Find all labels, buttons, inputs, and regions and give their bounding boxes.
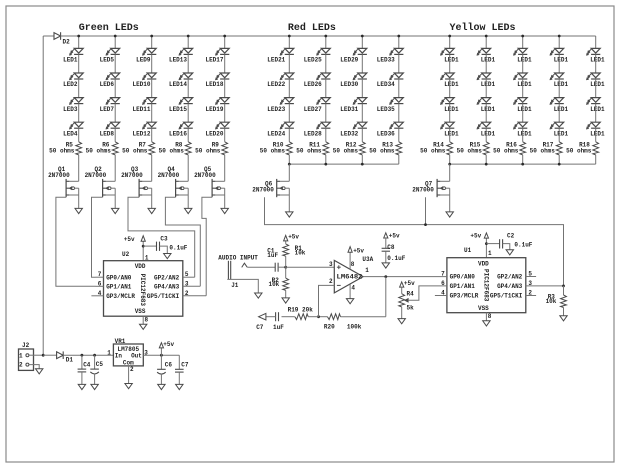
wire: Q7 gate tap: [425, 197, 427, 224]
svg-text:50 ohms: 50 ohms: [530, 147, 556, 154]
connector J1 (audio jack): [228, 261, 247, 280]
svg-text:C7: C7: [256, 324, 264, 331]
wire: Q1 gate to U2 GP1/AN1: [56, 197, 96, 286]
wire: [558, 128, 560, 142]
LED LED1: [550, 122, 564, 129]
node: C5 tap: [93, 354, 96, 357]
svg-text:LED9: LED9: [136, 57, 151, 64]
LED LED31: [353, 98, 367, 105]
svg-text:C6: C6: [165, 362, 173, 369]
svg-text:GP1/AN1: GP1/AN1: [106, 284, 132, 291]
svg-text:LED22: LED22: [267, 81, 285, 88]
svg-text:50 ohms: 50 ohms: [260, 147, 286, 154]
ground at C2: [506, 250, 513, 255]
svg-text:VR1: VR1: [115, 338, 126, 345]
svg-text:LED27: LED27: [304, 106, 322, 113]
svg-text:2N7000: 2N7000: [48, 172, 70, 179]
svg-text:LED1: LED1: [444, 130, 459, 137]
pin stub U2 pin5: [183, 276, 195, 278]
svg-text:R19 20k: R19 20k: [288, 306, 314, 313]
svg-text:D2: D2: [63, 39, 71, 46]
LED LED27: [316, 98, 330, 105]
svg-text:LED1: LED1: [517, 106, 532, 113]
wire: [361, 155, 363, 164]
LED LED11: [142, 98, 156, 105]
svg-text:1uF: 1uF: [267, 252, 278, 259]
capacitor C8 (0.1uF bypass): [382, 238, 390, 263]
LED LED28: [316, 122, 330, 129]
svg-text:LED20: LED20: [205, 130, 223, 137]
wire: op-amp pin4 to ground: [349, 284, 351, 298]
transistor Q7 (2N7000): [437, 179, 450, 212]
pin stub U2 pin3: [183, 285, 201, 287]
wire: Q6 drain from red bus: [288, 164, 290, 181]
svg-text:1uF: 1uF: [273, 324, 284, 331]
wire: [361, 54, 363, 73]
wire: U1 pin3 to gate net / R3: [526, 285, 564, 287]
resistor R8 (50 ohms): [185, 142, 191, 155]
wire: VR1 Com to ground: [128, 366, 130, 384]
resistor R2 (10k) to ground: [283, 267, 289, 298]
wire: R4 wiper to U1 GP1/AN1: [408, 286, 447, 300]
ground at C8: [382, 263, 389, 268]
wire: LED column: [558, 36, 560, 48]
wire: C3 to ground: [160, 246, 168, 253]
LED LED1: [513, 98, 527, 105]
pin stub U2 pin6: [96, 285, 104, 287]
svg-text:50 ohms: 50 ohms: [159, 147, 185, 154]
svg-text:LED11: LED11: [132, 106, 150, 113]
svg-text:LED2: LED2: [63, 81, 78, 88]
wire: [288, 155, 290, 164]
capacitor C1 (1uF): [275, 263, 278, 272]
transistor Q4 (2N7000): [176, 179, 189, 209]
svg-text:Yellow LEDs: Yellow LEDs: [450, 22, 516, 34]
LED LED21: [280, 48, 294, 55]
wire: U1 VDD pin: [485, 244, 487, 258]
pin stub U2 pin7: [96, 276, 104, 278]
wire: J1 tip to C1: [247, 266, 275, 268]
wire: LED column: [485, 36, 487, 48]
resistor R12 (50 ohms): [359, 142, 365, 155]
wire: LED column: [114, 36, 116, 48]
resistor R5 (50 ohms): [76, 142, 82, 155]
diode D2: [54, 32, 61, 40]
svg-text:50 ohms: 50 ohms: [369, 147, 395, 154]
LED LED20: [215, 122, 229, 129]
LED LED1: [550, 98, 564, 105]
wire: LED column: [288, 36, 290, 48]
LED LED14: [179, 73, 193, 80]
svg-text:LED30: LED30: [340, 81, 358, 88]
ground at Q2 source: [112, 208, 119, 213]
wire: [78, 54, 80, 73]
LED LED36: [389, 122, 403, 129]
svg-text:+5v: +5v: [404, 280, 415, 287]
svg-text:+5v: +5v: [124, 236, 135, 243]
LED LED33: [389, 48, 403, 55]
op-amp U3A (LM6482): [334, 260, 363, 293]
svg-text:LED1: LED1: [481, 57, 496, 64]
wire: [522, 79, 524, 98]
wire: D1 to VR1 In: [63, 354, 113, 356]
transistor Q1 (2N7000): [66, 179, 79, 209]
ground at Q5 source: [221, 208, 228, 213]
svg-text:PIC12F683: PIC12F683: [139, 274, 146, 307]
svg-text:LED13: LED13: [169, 57, 187, 64]
svg-text:GP0/AN0: GP0/AN0: [106, 274, 132, 281]
LED LED16: [179, 122, 193, 129]
wire: op-amp output to U1 GP0/AN0: [363, 276, 447, 278]
svg-text:4: 4: [351, 285, 355, 292]
wire: left supply rail from D2 anode down to input node: [42, 36, 44, 355]
wire: [224, 54, 226, 73]
wire: [151, 155, 153, 181]
svg-text:LED15: LED15: [169, 106, 187, 113]
power +5v at C8: [384, 233, 400, 240]
capacitor C6 (electrolytic): [157, 355, 166, 384]
svg-text:LED35: LED35: [377, 106, 395, 113]
LED LED3: [69, 98, 83, 105]
svg-text:LED1: LED1: [554, 57, 569, 64]
svg-text:R20: R20: [324, 323, 335, 330]
wire: [449, 104, 451, 123]
svg-text:LED31: LED31: [340, 106, 358, 113]
potentiometer R4 (5k): [399, 287, 408, 319]
wire: [325, 155, 327, 164]
wire: U2 VSS to ground: [142, 316, 144, 324]
pin stub U1 pin5 (unconnected): [526, 276, 536, 278]
wire: [325, 104, 327, 123]
svg-text:LED17: LED17: [205, 57, 223, 64]
svg-text:2: 2: [329, 278, 333, 285]
wire: [224, 155, 226, 181]
wire: [449, 79, 451, 98]
wire: C7 to off-page arrow: [266, 316, 276, 318]
ground at op-amp pin4: [346, 299, 353, 304]
svg-text:2N7000: 2N7000: [194, 172, 216, 179]
svg-text:+5v: +5v: [353, 247, 364, 254]
wire: junction up to op-amp -input: [319, 285, 335, 316]
wire: to C2: [486, 243, 499, 245]
LED LED32: [353, 122, 367, 129]
svg-text:LED23: LED23: [267, 106, 285, 113]
LED LED25: [316, 48, 330, 55]
svg-text:LED3: LED3: [63, 106, 78, 113]
wire: C1 to bias node: [278, 266, 286, 268]
wire: feedback bottom run: [341, 316, 386, 318]
svg-text:GP5/T1CKI: GP5/T1CKI: [490, 293, 523, 300]
svg-text:LED1: LED1: [481, 106, 496, 113]
svg-text:U1: U1: [464, 247, 472, 254]
resistor R9 (50 ohms): [222, 142, 228, 155]
svg-text:2N7000: 2N7000: [85, 172, 107, 179]
wire: [522, 155, 524, 164]
svg-text:LED24: LED24: [267, 130, 285, 137]
wire: Q6/Q7 gate net from U1 GP4/AN3: [265, 197, 564, 286]
svg-text:10k: 10k: [295, 249, 306, 256]
wire: [361, 79, 363, 98]
LED LED1: [586, 48, 600, 55]
svg-text:R4: R4: [407, 291, 415, 298]
svg-text:1: 1: [19, 353, 23, 360]
svg-text:2: 2: [130, 366, 134, 373]
LED LED26: [316, 73, 330, 80]
LED LED1: [586, 122, 600, 129]
wire: [78, 155, 80, 181]
LED LED10: [142, 73, 156, 80]
svg-text:8: 8: [351, 261, 355, 268]
wire: [78, 104, 80, 123]
wire: [114, 104, 116, 123]
svg-text:50 ohms: 50 ohms: [457, 147, 483, 154]
wire: LED column: [151, 36, 153, 48]
LED LED7: [106, 98, 120, 105]
svg-text:U2: U2: [122, 251, 130, 258]
LED LED1: [477, 73, 491, 80]
resistor R18 (50 ohms): [593, 142, 599, 155]
svg-text:8: 8: [488, 313, 492, 320]
svg-text:1: 1: [107, 350, 111, 357]
svg-text:GP4/AN3: GP4/AN3: [154, 284, 180, 291]
svg-text:GP3/MCLR: GP3/MCLR: [106, 293, 135, 300]
svg-text:LED8: LED8: [100, 130, 115, 137]
transistor Q2 (2N7000): [103, 179, 116, 209]
wire: [398, 128, 400, 142]
wire: top LED supply rail: [61, 35, 596, 37]
resistor R7 (50 ohms): [149, 142, 155, 155]
wire: [485, 104, 487, 123]
LED LED34: [389, 73, 403, 80]
wire: [151, 104, 153, 123]
wire: yellow bank bus: [450, 163, 596, 165]
wire: [522, 128, 524, 142]
node A: bias junction: [284, 266, 287, 269]
node: pin3 junction: [562, 285, 565, 288]
resistor R15 (50 ohms): [483, 142, 489, 155]
capacitor C7 (1uF, feedback): [276, 312, 279, 321]
transistor Q6 (2N7000): [277, 179, 290, 212]
LED LED1: [440, 122, 454, 129]
wire: [78, 79, 80, 98]
wire: [288, 54, 290, 73]
wire: [187, 104, 189, 123]
LED LED18: [215, 73, 229, 80]
wire: U2 VDD pin: [142, 246, 144, 261]
wire: J2 pin2 to ground: [29, 365, 39, 369]
svg-text:GP0/AN0: GP0/AN0: [450, 274, 476, 281]
LED LED1: [513, 73, 527, 80]
wire: Q7 drain from yellow bus: [449, 164, 451, 181]
wire: [151, 128, 153, 142]
resistor R1 (10k) to +5v: [283, 241, 289, 267]
LED LED35: [389, 98, 403, 105]
power +5v at U2 VDD: [124, 236, 146, 246]
wire: LED column: [595, 36, 597, 48]
LED LED4: [69, 122, 83, 129]
node: yellow bus junctions: [448, 163, 451, 166]
svg-text:LED12: LED12: [132, 130, 150, 137]
ground at U1 VSS: [483, 321, 490, 326]
wire: [595, 54, 597, 73]
svg-text:LED1: LED1: [590, 106, 605, 113]
wire: [288, 104, 290, 123]
svg-text:LED19: LED19: [205, 106, 223, 113]
wire: [288, 79, 290, 98]
LED LED8: [106, 122, 120, 129]
ground at Q1 source: [75, 208, 82, 213]
wire: [187, 54, 189, 73]
wire: [558, 54, 560, 73]
LED LED19: [215, 98, 229, 105]
wire: LED column: [449, 36, 451, 48]
svg-text:0.1uF: 0.1uF: [514, 241, 532, 248]
wire: [558, 79, 560, 98]
wire: [78, 128, 80, 142]
svg-text:LED25: LED25: [304, 57, 322, 64]
ground at J1 sleeve: [255, 293, 262, 298]
power +5v at U1 VDD: [470, 233, 488, 244]
LED LED1: [586, 98, 600, 105]
LED LED9: [142, 48, 156, 55]
svg-text:VDD: VDD: [135, 263, 146, 270]
wire: [325, 128, 327, 142]
svg-text:PIC12F683: PIC12F683: [483, 269, 490, 302]
wire: VR1 Out to C6/C7: [143, 354, 179, 356]
wire: [398, 155, 400, 164]
wire: U1 VSS to ground: [485, 313, 487, 321]
svg-text:0.1uF: 0.1uF: [387, 255, 405, 262]
svg-text:GP3/MCLR: GP3/MCLR: [450, 293, 479, 300]
pin stub U1 pin4 (unconnected): [435, 295, 447, 297]
wire: [325, 79, 327, 98]
node: +5v output junction: [160, 354, 163, 357]
svg-text:C2: C2: [507, 233, 515, 240]
wire: Q5 gate to U2 GP5/T1CKI: [202, 197, 212, 296]
svg-text:LED28: LED28: [304, 130, 322, 137]
node: raw supply junction: [42, 354, 45, 357]
svg-text:In: In: [115, 353, 123, 360]
wire: LED column: [361, 36, 363, 48]
svg-text:8: 8: [145, 317, 149, 324]
svg-text:GP4/AN3: GP4/AN3: [497, 283, 523, 290]
wire: LED column: [187, 36, 189, 48]
svg-text:LED1: LED1: [63, 57, 78, 64]
svg-text:50 ohms: 50 ohms: [86, 147, 112, 154]
svg-text:1: 1: [488, 250, 492, 257]
wire: Q4 gate to U2 GP4/AN3: [165, 197, 200, 286]
LED LED1: [440, 73, 454, 80]
svg-text:LED16: LED16: [169, 130, 187, 137]
svg-text:Green LEDs: Green LEDs: [79, 23, 139, 34]
svg-text:LED1: LED1: [517, 130, 532, 137]
wire: [114, 128, 116, 142]
capacitor C5 (electrolytic): [90, 355, 99, 384]
svg-text:LED1: LED1: [590, 130, 605, 137]
wire: [114, 79, 116, 98]
wire: [224, 79, 226, 98]
svg-text:LED4: LED4: [63, 130, 78, 137]
svg-text:+5v: +5v: [288, 234, 299, 241]
LED LED1: [440, 98, 454, 105]
svg-text:C3: C3: [160, 236, 168, 243]
svg-text:AUDIO INPUT: AUDIO INPUT: [218, 254, 258, 261]
svg-text:J1: J1: [231, 282, 239, 289]
svg-text:2N7000: 2N7000: [158, 172, 180, 179]
svg-text:LED1: LED1: [444, 57, 459, 64]
wire: [187, 128, 189, 142]
wire: op-amp pin8 to +5v: [349, 252, 351, 269]
ground at R3: [560, 316, 567, 321]
svg-text:LM6482: LM6482: [337, 274, 363, 281]
svg-text:D1: D1: [66, 356, 74, 363]
svg-text:GP2/AN2: GP2/AN2: [497, 274, 523, 281]
svg-text:LED7: LED7: [100, 106, 115, 113]
power +5v at VR1 output: [159, 341, 174, 355]
ground at J2 pin2: [36, 369, 43, 374]
resistor R11 (50 ohms): [323, 142, 329, 155]
svg-text:LED10: LED10: [132, 81, 150, 88]
svg-text:J2: J2: [22, 342, 30, 349]
svg-text:LED26: LED26: [304, 81, 322, 88]
LED LED1: [586, 73, 600, 80]
LED LED6: [106, 73, 120, 80]
svg-text:VSS: VSS: [135, 308, 146, 315]
wire: bias node to op-amp +input: [286, 266, 335, 268]
wire: [449, 155, 451, 164]
svg-text:C7: C7: [181, 362, 189, 369]
svg-text:2N7000: 2N7000: [252, 186, 274, 193]
LED LED12: [142, 122, 156, 129]
LED LED13: [179, 48, 193, 55]
resistor R14 (50 ohms): [447, 142, 453, 155]
power +5v at R1: [284, 234, 300, 241]
ground at U2 VSS: [140, 324, 147, 329]
svg-text:LED21: LED21: [267, 57, 285, 64]
wire: [485, 54, 487, 73]
svg-text:50 ohms: 50 ohms: [296, 147, 322, 154]
regulator VR1 LM7805 box: [113, 344, 143, 366]
svg-text:10k: 10k: [546, 298, 557, 305]
svg-text:LED1: LED1: [590, 57, 605, 64]
svg-text:LED6: LED6: [100, 81, 115, 88]
wire: LED column: [398, 36, 400, 48]
IC U1 PIC12F683 box: [447, 258, 526, 313]
wire: [187, 155, 189, 181]
svg-text:2N7000: 2N7000: [412, 186, 434, 193]
ground at C4: [78, 384, 85, 389]
svg-text:C8: C8: [387, 244, 395, 251]
capacitor C3 (0.1uF): [157, 242, 160, 251]
wire: feedback from output down: [385, 277, 387, 317]
svg-text:3: 3: [329, 261, 333, 268]
svg-text:100k: 100k: [347, 323, 362, 330]
svg-text:LED1: LED1: [444, 81, 459, 88]
node: inverting input junction: [317, 315, 320, 318]
wire: [595, 155, 597, 164]
wire: [595, 79, 597, 98]
svg-text:+5v: +5v: [389, 233, 400, 240]
wire: [114, 155, 116, 181]
wire: [558, 155, 560, 164]
svg-text:+5v: +5v: [470, 233, 481, 240]
node: U2 VDD junction: [142, 245, 145, 248]
diode D1: [57, 351, 64, 359]
LED LED1: [477, 122, 491, 129]
wire: [288, 128, 290, 142]
svg-text:LED5: LED5: [100, 57, 115, 64]
pin stub U2 pin2: [183, 295, 206, 297]
